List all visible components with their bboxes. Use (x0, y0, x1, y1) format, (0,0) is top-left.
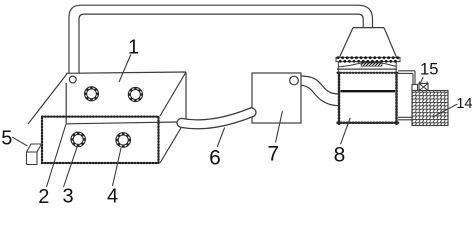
svg-text:5: 5 (1, 128, 12, 150)
svg-text:6: 6 (209, 146, 221, 169)
svg-text:3: 3 (62, 186, 73, 204)
svg-text:7: 7 (267, 143, 279, 166)
svg-text:14: 14 (456, 96, 472, 112)
svg-text:2: 2 (38, 186, 49, 203)
svg-text:4: 4 (107, 185, 118, 203)
svg-text:1: 1 (128, 37, 139, 59)
svg-text:15: 15 (420, 61, 438, 79)
svg-text:8: 8 (334, 144, 346, 167)
